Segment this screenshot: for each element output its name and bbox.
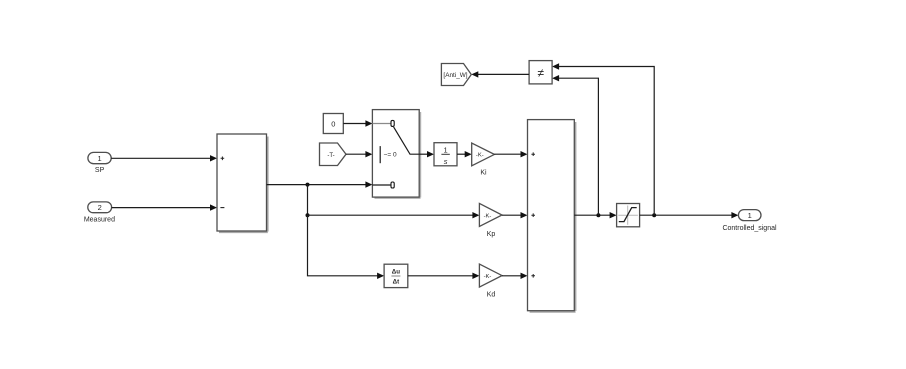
svg-text:≠: ≠ [537, 66, 544, 80]
svg-text:~= 0: ~= 0 [384, 152, 397, 159]
wire Sum2 out to Saturation [574, 212, 616, 218]
saturation block [617, 204, 640, 227]
from block -T- [320, 143, 347, 166]
wire constant to Switch input 1 [343, 120, 372, 126]
outport 1 Controlled_signal [722, 210, 777, 232]
inport 2 Measured [84, 202, 115, 223]
relational operator neq [529, 61, 552, 84]
svg-text:Δt: Δt [393, 278, 400, 285]
svg-text:1: 1 [98, 154, 102, 163]
svg-text:-K-: -K- [476, 153, 484, 159]
svg-text:Ki: Ki [480, 169, 487, 176]
wire neq out to goto Anti_W [471, 71, 529, 77]
svg-text:Kp: Kp [487, 231, 496, 238]
integrator block 1/s [434, 143, 457, 166]
wire Measured to Sum1 [112, 204, 217, 210]
wire -T- to Switch input 2 [346, 151, 372, 157]
gain Kd [479, 264, 502, 298]
goto block Anti_W [441, 64, 471, 86]
svg-text:Δu: Δu [392, 269, 400, 276]
wire pre-saturation feedback up to neq input 2 [552, 75, 598, 215]
wire derivative to Kd gain [408, 273, 480, 279]
node junction error branch 1 [306, 183, 310, 187]
svg-text:Measured: Measured [84, 216, 115, 223]
wire Switch out to Integrator [419, 151, 434, 157]
wire error to Kp gain [308, 212, 480, 218]
sum block Sum1 [217, 134, 268, 232]
sum block Sum2 [528, 120, 576, 312]
svg-text:1: 1 [444, 146, 448, 155]
node junction post-saturation [652, 213, 656, 217]
wire Saturation out to outport [640, 212, 739, 218]
node junction pre-saturation [596, 213, 600, 217]
wire Integrator to Ki gain [457, 151, 472, 157]
wire Kd to big Sum input 3 [502, 273, 528, 279]
switch block [372, 110, 420, 199]
svg-text:SP: SP [95, 167, 105, 174]
wire Sum1 out to Switch input 3 [267, 181, 373, 187]
wire Ki to big Sum input 1 [494, 151, 527, 157]
svg-text:1: 1 [748, 211, 752, 220]
wire Kp to big Sum input 2 [502, 212, 528, 218]
wire post-saturation feedback up to neq input 1 [552, 63, 654, 215]
svg-text:-K-: -K- [484, 213, 492, 219]
derivative block du/dt [384, 264, 408, 287]
svg-text:s: s [444, 157, 448, 166]
svg-text:0: 0 [331, 119, 335, 128]
inport 1 SP [88, 152, 111, 174]
svg-text:-K-: -K- [484, 274, 492, 280]
gain Ki [472, 143, 495, 176]
node junction error branch 2 [306, 213, 310, 217]
svg-text:2: 2 [98, 203, 102, 212]
svg-text:Kd: Kd [487, 292, 496, 299]
gain Kp [479, 203, 502, 238]
svg-text:Controlled_signal: Controlled_signal [722, 225, 777, 232]
constant block 0 [323, 114, 343, 134]
svg-text:[Anti_W]: [Anti_W] [443, 72, 467, 79]
wire error down and to derivative block [308, 215, 385, 279]
wire SP to Sum1 [111, 155, 217, 161]
wire error down to Kp row [307, 185, 309, 216]
svg-text:-T-: -T- [327, 153, 334, 159]
